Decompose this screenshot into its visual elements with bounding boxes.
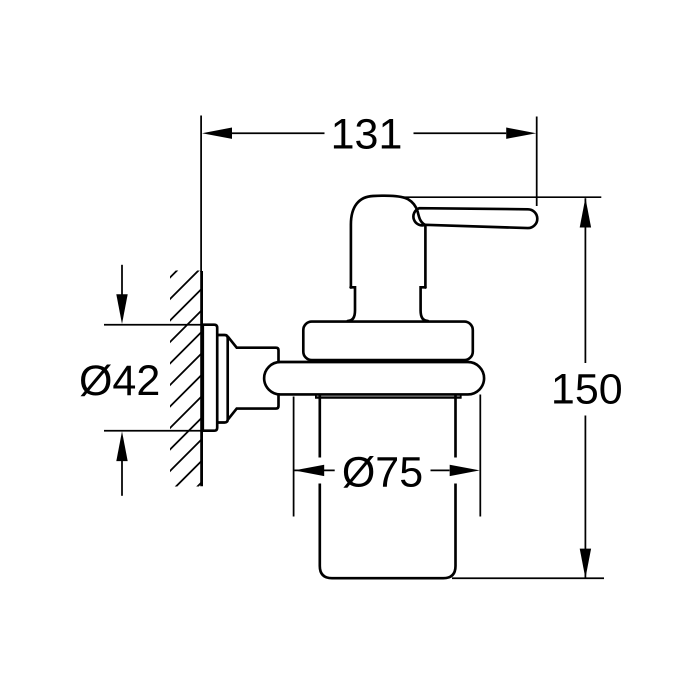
- svg-text:Ø42: Ø42: [79, 357, 160, 405]
- svg-text:131: 131: [331, 111, 403, 159]
- svg-text:Ø75: Ø75: [342, 448, 423, 496]
- svg-text:150: 150: [551, 366, 623, 414]
